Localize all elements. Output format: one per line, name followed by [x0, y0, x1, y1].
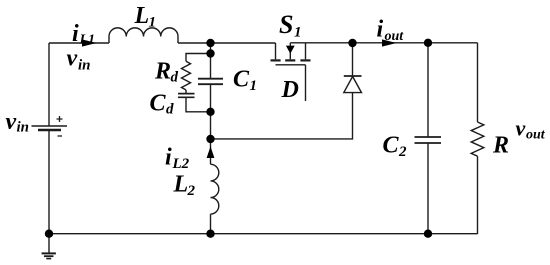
battery plus sign — [57, 116, 63, 122]
node Cd return dot — [206, 108, 214, 116]
diode D — [344, 75, 362, 77]
resistor R — [471, 122, 484, 156]
svg-text:i: i — [165, 145, 172, 171]
wire node A to transistor drain — [211, 42, 276, 44]
node C2 top dot — [424, 39, 432, 47]
svg-text:i: i — [72, 21, 79, 47]
transistor S1 drain stub — [275, 43, 277, 59]
wire C1 bottom to node B — [210, 85, 212, 140]
arrow i_L2 — [207, 146, 215, 158]
svg-text:L: L — [173, 172, 189, 198]
wire transistor source to right corner — [290, 42, 477, 44]
node C2 bottom dot — [424, 230, 432, 238]
wire battery negative to ground node — [48, 130, 50, 234]
svg-text:R: R — [154, 59, 171, 85]
wire L1 to node A — [178, 42, 211, 44]
svg-text:D: D — [281, 77, 299, 103]
battery minus sign — [58, 135, 63, 137]
svg-text:1: 1 — [149, 15, 157, 31]
svg-text:L: L — [134, 3, 150, 29]
wire node B down to L2 — [210, 139, 212, 164]
svg-text:d: d — [171, 70, 179, 86]
arrow i_out — [382, 39, 397, 46]
node diode cathode dot — [348, 39, 356, 47]
svg-text:2: 2 — [398, 144, 407, 160]
svg-text:C: C — [233, 67, 250, 93]
capacitor C1 — [198, 78, 223, 80]
transistor S1 body terminal — [289, 43, 291, 60]
wire L2 bottom — [210, 214, 212, 234]
wire bottom rail — [49, 233, 478, 235]
capacitor C2 branch upper wire — [427, 43, 429, 137]
svg-text:L2: L2 — [172, 156, 190, 172]
svg-text:S: S — [279, 10, 293, 39]
svg-text:in: in — [17, 120, 30, 136]
svg-text:R: R — [492, 133, 509, 159]
svg-text:v: v — [6, 109, 17, 135]
svg-text:C: C — [383, 133, 400, 159]
inductor L1 — [109, 28, 178, 43]
capacitor Cd — [178, 93, 195, 95]
svg-text:v: v — [516, 116, 526, 141]
svg-text:C: C — [150, 91, 167, 117]
node B dot — [206, 135, 214, 143]
wire Cd return to node — [186, 98, 211, 112]
transistor S1 gate — [276, 64, 306, 66]
svg-text:1: 1 — [294, 25, 302, 41]
wire left rail top (source to top wire) — [48, 43, 50, 126]
svg-text:i: i — [377, 17, 384, 43]
svg-text:out: out — [385, 29, 405, 44]
diode D branch upper wire — [352, 43, 354, 76]
node ground dot — [45, 230, 53, 238]
ground — [48, 234, 50, 253]
wire Rd to Cd — [185, 90, 187, 93]
node Rd tap dot — [206, 49, 214, 57]
node A dot — [206, 39, 214, 47]
svg-text:2: 2 — [187, 183, 196, 199]
node L2 bottom dot — [206, 230, 214, 238]
wire right rail lower — [477, 156, 479, 234]
capacitor C2 — [415, 136, 442, 138]
resistor Rd — [182, 61, 191, 90]
inductor L2 — [211, 164, 219, 214]
svg-text:v: v — [67, 46, 78, 72]
wire C2 bottom — [427, 143, 429, 233]
svg-text:out: out — [526, 128, 546, 143]
wire top left segment — [49, 42, 109, 44]
capacitor C1 branch upper wire — [210, 43, 212, 78]
svg-text:in: in — [78, 58, 91, 74]
transistor S1 source stub — [305, 43, 307, 60]
svg-text:d: d — [166, 102, 174, 118]
wire Rd tap horizontal — [186, 54, 211, 62]
transistor S1 body arrow — [286, 46, 295, 54]
battery V source plates — [32, 125, 68, 127]
wire diode anode to node B — [211, 93, 353, 139]
svg-text:L1: L1 — [79, 33, 96, 48]
wire right rail upper — [477, 43, 479, 122]
arrow i_L1 — [82, 39, 97, 46]
svg-text:1: 1 — [250, 78, 258, 94]
